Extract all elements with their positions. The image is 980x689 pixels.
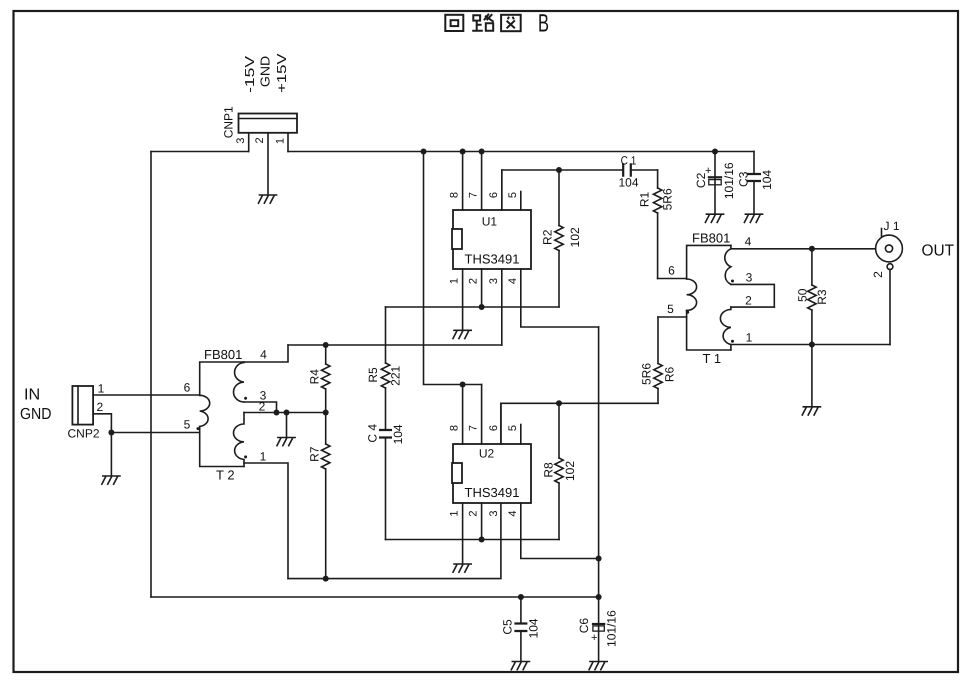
T1 pin 3 wire bbox=[731, 284, 774, 307]
wire: -15V rail to pin4s and C6 bbox=[598, 327, 600, 624]
T1 frame bbox=[687, 245, 731, 350]
svg-text:7: 7 bbox=[468, 425, 480, 431]
U1 pin 2 bbox=[481, 269, 483, 307]
J1 pin1 tick bbox=[881, 229, 883, 238]
wire: C4 to R8 bottom bbox=[386, 539, 560, 541]
U1 pin 4 bbox=[521, 269, 599, 327]
ground under CNP1 pin2 bbox=[258, 195, 276, 203]
wire: R6 to T1 pin5 bbox=[658, 316, 687, 318]
capacitor C3 bbox=[753, 152, 755, 175]
capacitor C1 bbox=[623, 163, 631, 177]
svg-text:1: 1 bbox=[274, 138, 286, 144]
svg-text:R1: R1 bbox=[637, 192, 651, 208]
svg-text:6: 6 bbox=[488, 192, 500, 198]
ground stub CNP2 bbox=[110, 433, 112, 476]
svg-text:-15V: -15V bbox=[242, 55, 257, 92]
svg-text:C 1: C 1 bbox=[621, 154, 637, 168]
wire: CNP1 pin3 to left rail bbox=[151, 151, 249, 153]
svg-text:T 2: T 2 bbox=[216, 467, 235, 482]
U2 pin 1 bbox=[462, 503, 464, 563]
svg-text:102: 102 bbox=[568, 227, 582, 247]
svg-text:6: 6 bbox=[184, 380, 191, 394]
T2 frame bbox=[200, 362, 244, 467]
T1 phase dot pin5 bbox=[686, 311, 689, 314]
svg-text:2: 2 bbox=[871, 271, 885, 278]
U2 pin 2 bbox=[481, 503, 483, 540]
svg-text:101/16: 101/16 bbox=[605, 610, 619, 647]
T2 pin 3 wire bbox=[244, 402, 277, 413]
U1 pin 8 bbox=[462, 152, 464, 211]
wire: U1 pin6 to C1/R2 bbox=[502, 170, 623, 210]
node R4/R7 mid bbox=[323, 410, 329, 416]
svg-text:6: 6 bbox=[668, 264, 675, 278]
svg-text:GND: GND bbox=[20, 406, 52, 423]
T2 phase dot pin3 bbox=[244, 397, 247, 400]
svg-text:4: 4 bbox=[507, 510, 519, 516]
svg-text:U2: U2 bbox=[479, 446, 495, 460]
ground stub T2 pin2 bbox=[286, 413, 288, 437]
svg-text:7: 7 bbox=[468, 192, 480, 198]
resistor R1 bbox=[657, 170, 659, 188]
T2 pin 1 wire bbox=[244, 463, 288, 579]
node R3 bottom bbox=[809, 342, 815, 348]
svg-text:J 1: J 1 bbox=[883, 219, 899, 233]
op-amp U2 THS3491 bbox=[453, 444, 531, 503]
svg-text:+: + bbox=[591, 632, 597, 644]
T1 pin 2 wire bbox=[731, 306, 774, 308]
svg-text:B: B bbox=[538, 10, 549, 38]
svg-text:C2: C2 bbox=[694, 172, 708, 188]
CNP2 pin 1 wire to T2 pin6 bbox=[93, 394, 200, 396]
capacitor C4 bbox=[385, 388, 387, 430]
svg-text:3: 3 bbox=[488, 278, 500, 284]
svg-text:104: 104 bbox=[760, 170, 774, 190]
svg-text:C6: C6 bbox=[577, 618, 591, 634]
node R4 top bbox=[323, 342, 329, 348]
node: bus to C2 bbox=[712, 149, 718, 155]
resistor R4 bbox=[325, 345, 327, 364]
svg-text:50: 50 bbox=[796, 288, 810, 302]
svg-text:5R6: 5R6 bbox=[660, 188, 674, 210]
capacitor C2 electrolytic bbox=[714, 152, 716, 178]
T1 right winding 2-1 bbox=[720, 307, 731, 350]
resistor R3 bbox=[811, 249, 813, 285]
node R2 top bbox=[556, 167, 562, 173]
jack J1 bbox=[876, 235, 903, 262]
svg-text:CNP2: CNP2 bbox=[67, 426, 99, 440]
wire: J1 pin2 down bbox=[889, 270, 891, 345]
svg-text:GND: GND bbox=[258, 56, 273, 87]
svg-text:1: 1 bbox=[98, 381, 105, 395]
U2 pin 7 bbox=[481, 385, 483, 445]
svg-text:THS3491: THS3491 bbox=[465, 485, 520, 500]
svg-text:U1: U1 bbox=[482, 215, 498, 229]
T2 right winding 2-1 bbox=[234, 413, 244, 467]
node U2 pin8 supply bbox=[460, 382, 466, 388]
CNP1 pin 3 bbox=[248, 133, 250, 152]
node: bus to U1 pin7 bbox=[479, 149, 485, 155]
svg-text:3: 3 bbox=[235, 138, 247, 144]
T2 phase dot pin5 bbox=[197, 427, 200, 430]
op-amp U1 THS3491 bbox=[453, 210, 531, 269]
svg-text:+15V: +15V bbox=[274, 53, 289, 93]
wire: feedback node bbox=[386, 306, 560, 308]
T2 right winding 4-3 bbox=[234, 362, 244, 402]
T2 pin 2 wire bbox=[244, 412, 326, 414]
wire: +15V top bus bbox=[288, 151, 754, 153]
resistor R5 bbox=[385, 307, 387, 363]
wire: R1 to T1 pin6 bbox=[658, 278, 687, 280]
U2 pin1 notch bbox=[452, 463, 462, 483]
node pin2 gnd stub bbox=[284, 410, 290, 416]
CNP2 pin 2 bbox=[93, 414, 111, 433]
svg-text:4: 4 bbox=[745, 235, 752, 249]
node U1 pin2 feedback bbox=[479, 304, 485, 310]
svg-text:4: 4 bbox=[507, 278, 519, 284]
U1 pin 6 bbox=[501, 170, 503, 210]
wire: left -15V rail bbox=[150, 152, 152, 598]
T1 phase dot pin3 bbox=[731, 280, 734, 283]
node C5 bbox=[518, 594, 524, 600]
node R7 bottom bbox=[323, 576, 329, 582]
svg-text:C3: C3 bbox=[736, 171, 750, 187]
node U2 pin2 bbox=[479, 537, 485, 543]
svg-text:102: 102 bbox=[563, 461, 577, 481]
svg-text:104: 104 bbox=[527, 618, 541, 638]
svg-text:THS3491: THS3491 bbox=[465, 252, 520, 267]
connector CNP2 bbox=[72, 386, 93, 425]
wire: supply drop to U2 bbox=[424, 152, 482, 385]
J1 pin2 circle bbox=[887, 264, 893, 270]
svg-text:CNP1: CNP1 bbox=[221, 106, 235, 138]
svg-text:3: 3 bbox=[746, 271, 753, 285]
connector CNP1 bbox=[239, 114, 298, 133]
svg-text:R6: R6 bbox=[662, 367, 676, 383]
svg-text:1: 1 bbox=[449, 278, 461, 284]
resistor R8 bbox=[558, 403, 560, 458]
svg-text:C 4: C 4 bbox=[365, 424, 379, 443]
T1 pin 1 wire bbox=[731, 344, 890, 346]
svg-text:1: 1 bbox=[449, 510, 461, 516]
U1 pin 3 bbox=[501, 269, 503, 345]
svg-text:2: 2 bbox=[468, 278, 480, 284]
wire: T2 pin1 / R7 to U2 pin3 bbox=[288, 503, 501, 579]
svg-text:2: 2 bbox=[96, 400, 103, 414]
svg-text:101/16: 101/16 bbox=[722, 162, 736, 199]
ground at U1 pin1 bbox=[453, 330, 471, 338]
svg-text:2: 2 bbox=[259, 400, 266, 414]
T1 left winding bbox=[687, 279, 697, 310]
resistor R7 bbox=[325, 413, 327, 445]
T1 pin 4 wire to J1 bbox=[731, 248, 876, 250]
U1 pin 1 bbox=[462, 269, 464, 330]
U1 pin1 notch bbox=[452, 229, 462, 249]
U1 pin 7 bbox=[481, 152, 483, 211]
wire: bottom -15V bus bbox=[151, 596, 599, 598]
node CNP2 gnd bbox=[108, 430, 114, 436]
svg-text:IN: IN bbox=[24, 387, 40, 404]
node pin3-pin2 tie bbox=[274, 410, 280, 416]
T2 left winding bbox=[200, 395, 210, 426]
svg-text:FB801: FB801 bbox=[204, 347, 242, 362]
svg-text:5: 5 bbox=[667, 302, 674, 316]
svg-text:5R6: 5R6 bbox=[639, 363, 653, 385]
svg-text:2: 2 bbox=[254, 137, 266, 143]
U1 pin 5 stub bbox=[520, 192, 522, 211]
svg-text:104: 104 bbox=[618, 176, 638, 190]
svg-text:3: 3 bbox=[488, 510, 500, 516]
CNP1 pin 1 bbox=[287, 133, 289, 152]
svg-text:R4: R4 bbox=[308, 369, 322, 385]
node R3 top bbox=[809, 246, 815, 252]
node: bus to U2 supply bbox=[421, 149, 427, 155]
wire: CNP2 pin2 to T2 pin5 bbox=[111, 432, 199, 434]
svg-text:4: 4 bbox=[260, 348, 267, 362]
svg-text:T 1: T 1 bbox=[703, 351, 722, 366]
wire: T2 pin4 to U1 pin3 bbox=[288, 344, 502, 346]
U2 pin 6 bbox=[500, 403, 502, 444]
svg-text:5: 5 bbox=[507, 192, 519, 198]
T2 pin 4 wire bbox=[244, 345, 288, 362]
svg-text:104: 104 bbox=[391, 424, 405, 444]
svg-text:OUT: OUT bbox=[922, 242, 955, 259]
CNP1 pin 2 bbox=[267, 133, 269, 195]
U2 pin 8 bbox=[462, 385, 464, 445]
svg-text:8: 8 bbox=[449, 192, 461, 198]
svg-text:1: 1 bbox=[260, 450, 267, 464]
svg-text:5: 5 bbox=[184, 418, 191, 432]
node rail bottom bus bbox=[596, 594, 602, 600]
svg-text:2: 2 bbox=[468, 510, 480, 516]
svg-text:R8: R8 bbox=[541, 462, 555, 478]
svg-text:C5: C5 bbox=[500, 619, 514, 635]
svg-text:R7: R7 bbox=[308, 446, 322, 462]
resistor R2 bbox=[558, 170, 560, 226]
svg-text:8: 8 bbox=[449, 425, 461, 431]
svg-text:FB801: FB801 bbox=[692, 230, 730, 245]
U2 pin 4 bbox=[521, 503, 599, 559]
title 回路図 B bbox=[445, 14, 520, 31]
ground stub R3 bbox=[811, 345, 813, 407]
node U2 pin4 rail bbox=[596, 556, 602, 562]
svg-text:R3: R3 bbox=[815, 289, 829, 305]
svg-text:2: 2 bbox=[745, 294, 752, 308]
capacitor C6 electrolytic bbox=[592, 623, 605, 625]
U2 pin 5 stub bbox=[520, 425, 522, 445]
capacitor C5 bbox=[520, 597, 522, 624]
T2 phase dot pin1 bbox=[244, 455, 247, 458]
node: bus to U1 pin8 bbox=[460, 149, 466, 155]
ground at U2 pin1 bbox=[453, 564, 471, 572]
node R8 top bbox=[556, 400, 562, 406]
svg-text:6: 6 bbox=[488, 425, 500, 431]
svg-text:R5: R5 bbox=[366, 367, 380, 383]
T1 right winding 4-3 bbox=[725, 245, 731, 284]
wire: U2 pin6 loop bbox=[501, 403, 658, 444]
svg-text:221: 221 bbox=[389, 365, 403, 385]
svg-text:R2: R2 bbox=[540, 229, 554, 245]
T1 phase dot pin1 bbox=[731, 340, 734, 343]
svg-text:1: 1 bbox=[746, 331, 753, 345]
svg-text:5: 5 bbox=[507, 425, 519, 431]
resistor R6 bbox=[657, 317, 659, 364]
